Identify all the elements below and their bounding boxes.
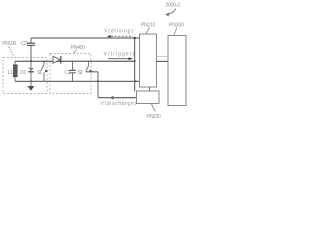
svg-text:PN400: PN400 — [71, 45, 86, 51]
svg-text:2000-2: 2000-2 — [166, 2, 181, 8]
node dot S1 top — [43, 60, 45, 62]
wire: middle rail — [15, 60, 135, 62]
node dot S2 top — [88, 60, 90, 62]
node dot D1 top — [30, 60, 32, 62]
leader PN300 — [174, 28, 177, 36]
leader PN100 (dashed) — [9, 47, 15, 57]
node dot bottom junction — [135, 80, 137, 82]
diode D1 — [30, 61, 32, 81]
node dot middle junction — [134, 60, 136, 62]
inductor L1 — [14, 61, 16, 81]
wire: top rail — [31, 37, 140, 39]
leader PN220 — [152, 104, 156, 112]
svg-text:PN100: PN100 — [2, 41, 16, 47]
dashed block PN100 — [3, 58, 47, 94]
block PN210 — [140, 34, 157, 87]
svg-text:C2: C2 — [21, 41, 27, 47]
svg-text:L1: L1 — [8, 70, 13, 76]
switch S1 — [43, 61, 45, 64]
capacitor C3 — [72, 61, 74, 81]
wire discharge line — [98, 97, 137, 99]
arrow V(trigger) — [108, 58, 129, 60]
leader PN210 — [146, 28, 150, 34]
svg-text:V(discharge): V(discharge) — [101, 101, 137, 107]
svg-text:PN220: PN220 — [147, 114, 161, 120]
svg-text:PN210: PN210 — [141, 22, 156, 28]
block PN300 — [168, 36, 186, 106]
wire: bottom rail — [15, 80, 140, 82]
node dot S2/bottom-rail crossing — [97, 80, 99, 82]
node dot at top-right junction — [134, 37, 136, 39]
wire PN210 to PN220 — [149, 87, 151, 91]
node dot C3 top — [72, 60, 74, 62]
svg-text:S1: S1 — [37, 70, 42, 76]
capacitor C2 — [30, 38, 32, 61]
wire PN210-PN300 connector — [157, 60, 169, 62]
node dot D1 bottom — [30, 80, 32, 82]
svg-text:D1: D1 — [20, 70, 26, 76]
ground — [30, 81, 32, 86]
leader PN400 — [74, 50, 77, 53]
arrow V(driving) — [107, 35, 111, 38]
wire S2 jog — [86, 72, 98, 98]
switch S2 — [88, 61, 90, 66]
wire: right vertical bus — [134, 38, 136, 91]
svg-text:V(driving): V(driving) — [104, 28, 133, 34]
diode D2 (series on middle rail) — [53, 56, 60, 63]
dashed block PN400 — [50, 54, 91, 94]
block PN220 (small) — [137, 91, 160, 104]
svg-text:S2: S2 — [78, 70, 83, 76]
svg-text:V(trigger): V(trigger) — [104, 52, 135, 58]
wire PN210-PN300 upper faint connector — [157, 56, 169, 58]
curved arrow to figure — [168, 9, 176, 15]
arrow V(discharge) — [113, 97, 136, 99]
